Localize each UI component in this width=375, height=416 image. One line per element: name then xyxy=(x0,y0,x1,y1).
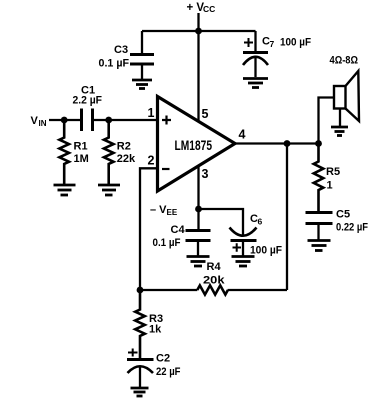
resistor R1 xyxy=(59,120,69,184)
wire speaker to ground xyxy=(339,109,341,127)
label C3 value xyxy=(99,44,130,70)
wire output pin4 xyxy=(235,142,319,144)
svg-text:2.2 µF: 2.2 µF xyxy=(73,95,103,107)
capacitor C5 xyxy=(306,213,333,224)
svg-text:C4: C4 xyxy=(171,224,186,236)
label C1 xyxy=(73,85,103,107)
svg-text:+ V: + V xyxy=(187,2,205,14)
wire feedback down xyxy=(286,144,288,291)
ground under R1 xyxy=(54,185,76,195)
svg-text:1M: 1M xyxy=(74,153,89,165)
svg-text:– V: – V xyxy=(150,204,167,216)
label R5 xyxy=(326,166,340,192)
label pin 1 xyxy=(148,106,246,181)
label R1 xyxy=(74,141,89,166)
ground under C7 xyxy=(243,79,268,88)
wire input to C1 xyxy=(49,119,81,121)
svg-text:0.22 µF: 0.22 µF xyxy=(336,222,368,234)
ground under C3 xyxy=(132,80,152,89)
wire C6 to ground xyxy=(242,241,244,256)
svg-text:5: 5 xyxy=(202,107,209,121)
label R3 xyxy=(149,313,163,336)
label plus input xyxy=(162,116,171,125)
label C7 plus xyxy=(244,36,311,50)
svg-text:100 µF: 100 µF xyxy=(280,37,311,49)
node feedback junction xyxy=(284,140,291,147)
wire C4 to ground xyxy=(197,241,199,256)
wire C7 to ground xyxy=(254,57,256,77)
wire to speaker xyxy=(319,98,335,144)
wire C3 to ground xyxy=(141,64,143,79)
wire top supply rail xyxy=(142,30,256,32)
svg-text:1: 1 xyxy=(327,180,333,192)
speaker LS1 xyxy=(334,71,359,121)
svg-text:R1: R1 xyxy=(74,141,88,153)
wire C1 to pin 1 xyxy=(93,119,158,121)
node VCC junction xyxy=(195,28,202,35)
capacitor C7 (electrolytic) xyxy=(243,53,268,66)
resistor R4 xyxy=(197,285,228,294)
svg-text:0.1 µF: 0.1 µF xyxy=(99,58,130,70)
label speaker impedance xyxy=(330,55,359,67)
capacitor C3 xyxy=(130,55,154,65)
node feedback-R3 junction xyxy=(137,287,144,294)
wire feedback bottom right xyxy=(228,289,287,291)
label -VEE xyxy=(150,204,178,217)
svg-text:1: 1 xyxy=(148,106,155,120)
ground under C5 xyxy=(308,241,331,251)
svg-text:C2: C2 xyxy=(156,353,170,365)
wire feedback bottom left xyxy=(140,289,197,291)
svg-text:2: 2 xyxy=(148,154,155,168)
svg-text:3: 3 xyxy=(202,167,209,181)
resistor R2 xyxy=(104,120,114,184)
wire C2 to ground xyxy=(139,367,141,388)
svg-text:4Ω-8Ω: 4Ω-8Ω xyxy=(330,55,359,67)
svg-text:R5: R5 xyxy=(326,166,340,178)
ground under C6 xyxy=(232,257,255,267)
resistor R3 xyxy=(135,290,145,359)
resistor R5 xyxy=(314,144,324,213)
node speaker junction xyxy=(315,140,322,147)
ground under speaker xyxy=(331,127,348,136)
svg-text:C5: C5 xyxy=(336,209,350,221)
wire C7 drop xyxy=(254,31,256,52)
svg-text:CC: CC xyxy=(203,4,215,14)
wire pin2 left and down xyxy=(140,168,158,290)
svg-text:22 µF: 22 µF xyxy=(156,366,181,378)
capacitor C6 (electrolytic) xyxy=(230,228,257,241)
node VEE junction xyxy=(195,206,202,213)
svg-text:R4: R4 xyxy=(207,261,222,273)
node +VCC label xyxy=(187,2,216,14)
ground under C2 xyxy=(131,388,149,396)
wire VCC stem down to pin 5 xyxy=(197,13,199,122)
svg-text:1k: 1k xyxy=(149,324,162,336)
wire VEE to C6 xyxy=(199,209,244,236)
node input junction xyxy=(61,117,68,124)
wire pin3 down xyxy=(197,166,199,231)
capacitor C1 xyxy=(82,109,93,132)
label C6 xyxy=(233,213,283,257)
svg-text:R2: R2 xyxy=(117,141,131,153)
op-amp U1 LM1875 triangle xyxy=(158,97,236,192)
capacitor C2 (electrolytic) xyxy=(127,360,154,374)
svg-text:0.1 µF: 0.1 µF xyxy=(153,237,181,249)
svg-text:V: V xyxy=(31,115,39,127)
wire C3 drop xyxy=(141,31,143,54)
svg-text:4: 4 xyxy=(239,128,246,142)
label C5 xyxy=(336,209,368,234)
node pin1 junction xyxy=(105,117,112,124)
svg-text:LM1875: LM1875 xyxy=(175,137,213,153)
label C4 xyxy=(153,224,186,249)
svg-text:EE: EE xyxy=(167,208,178,217)
ground under R2 xyxy=(98,185,120,195)
svg-text:20k: 20k xyxy=(203,275,226,287)
label C6 plus xyxy=(233,243,242,252)
ground under C4 xyxy=(187,257,210,267)
svg-text:6: 6 xyxy=(258,217,263,227)
svg-text:C3: C3 xyxy=(114,44,128,56)
label VIN xyxy=(31,115,47,128)
svg-text:22k: 22k xyxy=(117,153,136,165)
wire C5 to ground xyxy=(317,224,319,240)
label R4 xyxy=(203,261,226,287)
capacitor C4 xyxy=(186,231,211,241)
svg-text:100 µF: 100 µF xyxy=(250,245,282,257)
svg-text:7: 7 xyxy=(270,39,275,49)
label R2 xyxy=(117,141,136,166)
label minus input xyxy=(162,168,170,170)
label C2 plus xyxy=(128,349,181,378)
svg-text:IN: IN xyxy=(39,119,47,128)
